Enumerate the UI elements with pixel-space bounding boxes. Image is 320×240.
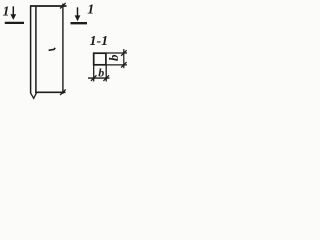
svg-text:1: 1 (87, 3, 94, 18)
svg-text:1: 1 (3, 5, 10, 20)
svg-text:b: b (106, 54, 121, 61)
svg-text:1-1: 1-1 (90, 34, 109, 49)
svg-text:b: b (98, 65, 104, 79)
